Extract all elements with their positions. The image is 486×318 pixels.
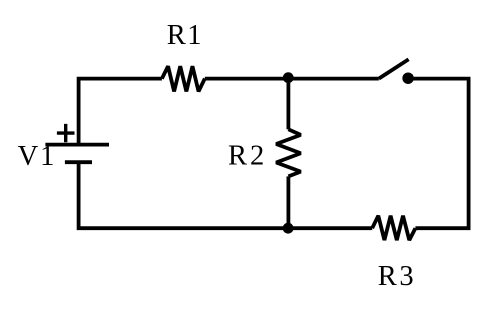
- resistor R2: [276, 129, 301, 176]
- resistor R3: [372, 216, 415, 240]
- svg-text:R3: R3: [378, 261, 414, 292]
- wire: node B across bottom and up to battery - terminal: [79, 162, 289, 228]
- wire: battery + terminal up left side and across top to R1 left lead: [79, 79, 162, 145]
- svg-text:V1: V1: [18, 141, 55, 172]
- wire: node A down to R2 top lead: [286, 79, 290, 130]
- wire: R1 right lead to node A: [205, 77, 289, 81]
- resistor R1: [162, 66, 205, 91]
- wire: switch contact right, down right side to R3 right lead: [408, 79, 469, 229]
- switch S1 contact dot: [402, 72, 414, 84]
- wire: R3 left lead to node B: [288, 226, 372, 230]
- battery V1 plus sign: [57, 124, 75, 142]
- node A junction dot: [283, 72, 294, 83]
- node B junction dot: [283, 223, 294, 234]
- battery V1 negative plate (short): [65, 160, 92, 164]
- switch S1 blade (open): [379, 59, 409, 78]
- svg-text:R2: R2: [228, 140, 264, 171]
- wire: node A to switch pivot: [288, 77, 378, 81]
- wire: R2 bottom lead down to node B: [286, 176, 290, 228]
- battery V1 positive plate (long): [45, 143, 109, 147]
- svg-text:R1: R1: [167, 20, 202, 51]
